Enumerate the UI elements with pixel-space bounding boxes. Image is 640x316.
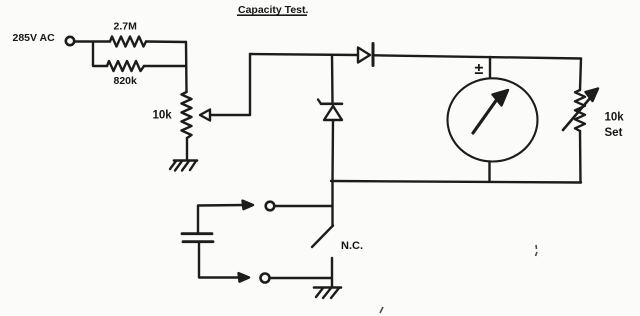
svg-text:2.7M: 2.7M [114, 21, 138, 33]
svg-text:285V AC: 285V AC [13, 32, 56, 44]
svg-text:Capacity Test.: Capacity Test. [238, 4, 308, 16]
svg-text:820k: 820k [114, 75, 138, 87]
svg-text:N.C.: N.C. [341, 240, 363, 252]
svg-text:±: ± [475, 61, 484, 78]
svg-text:10k: 10k [605, 112, 625, 124]
svg-text:Set: Set [605, 127, 623, 139]
svg-text:10k: 10k [153, 110, 173, 122]
